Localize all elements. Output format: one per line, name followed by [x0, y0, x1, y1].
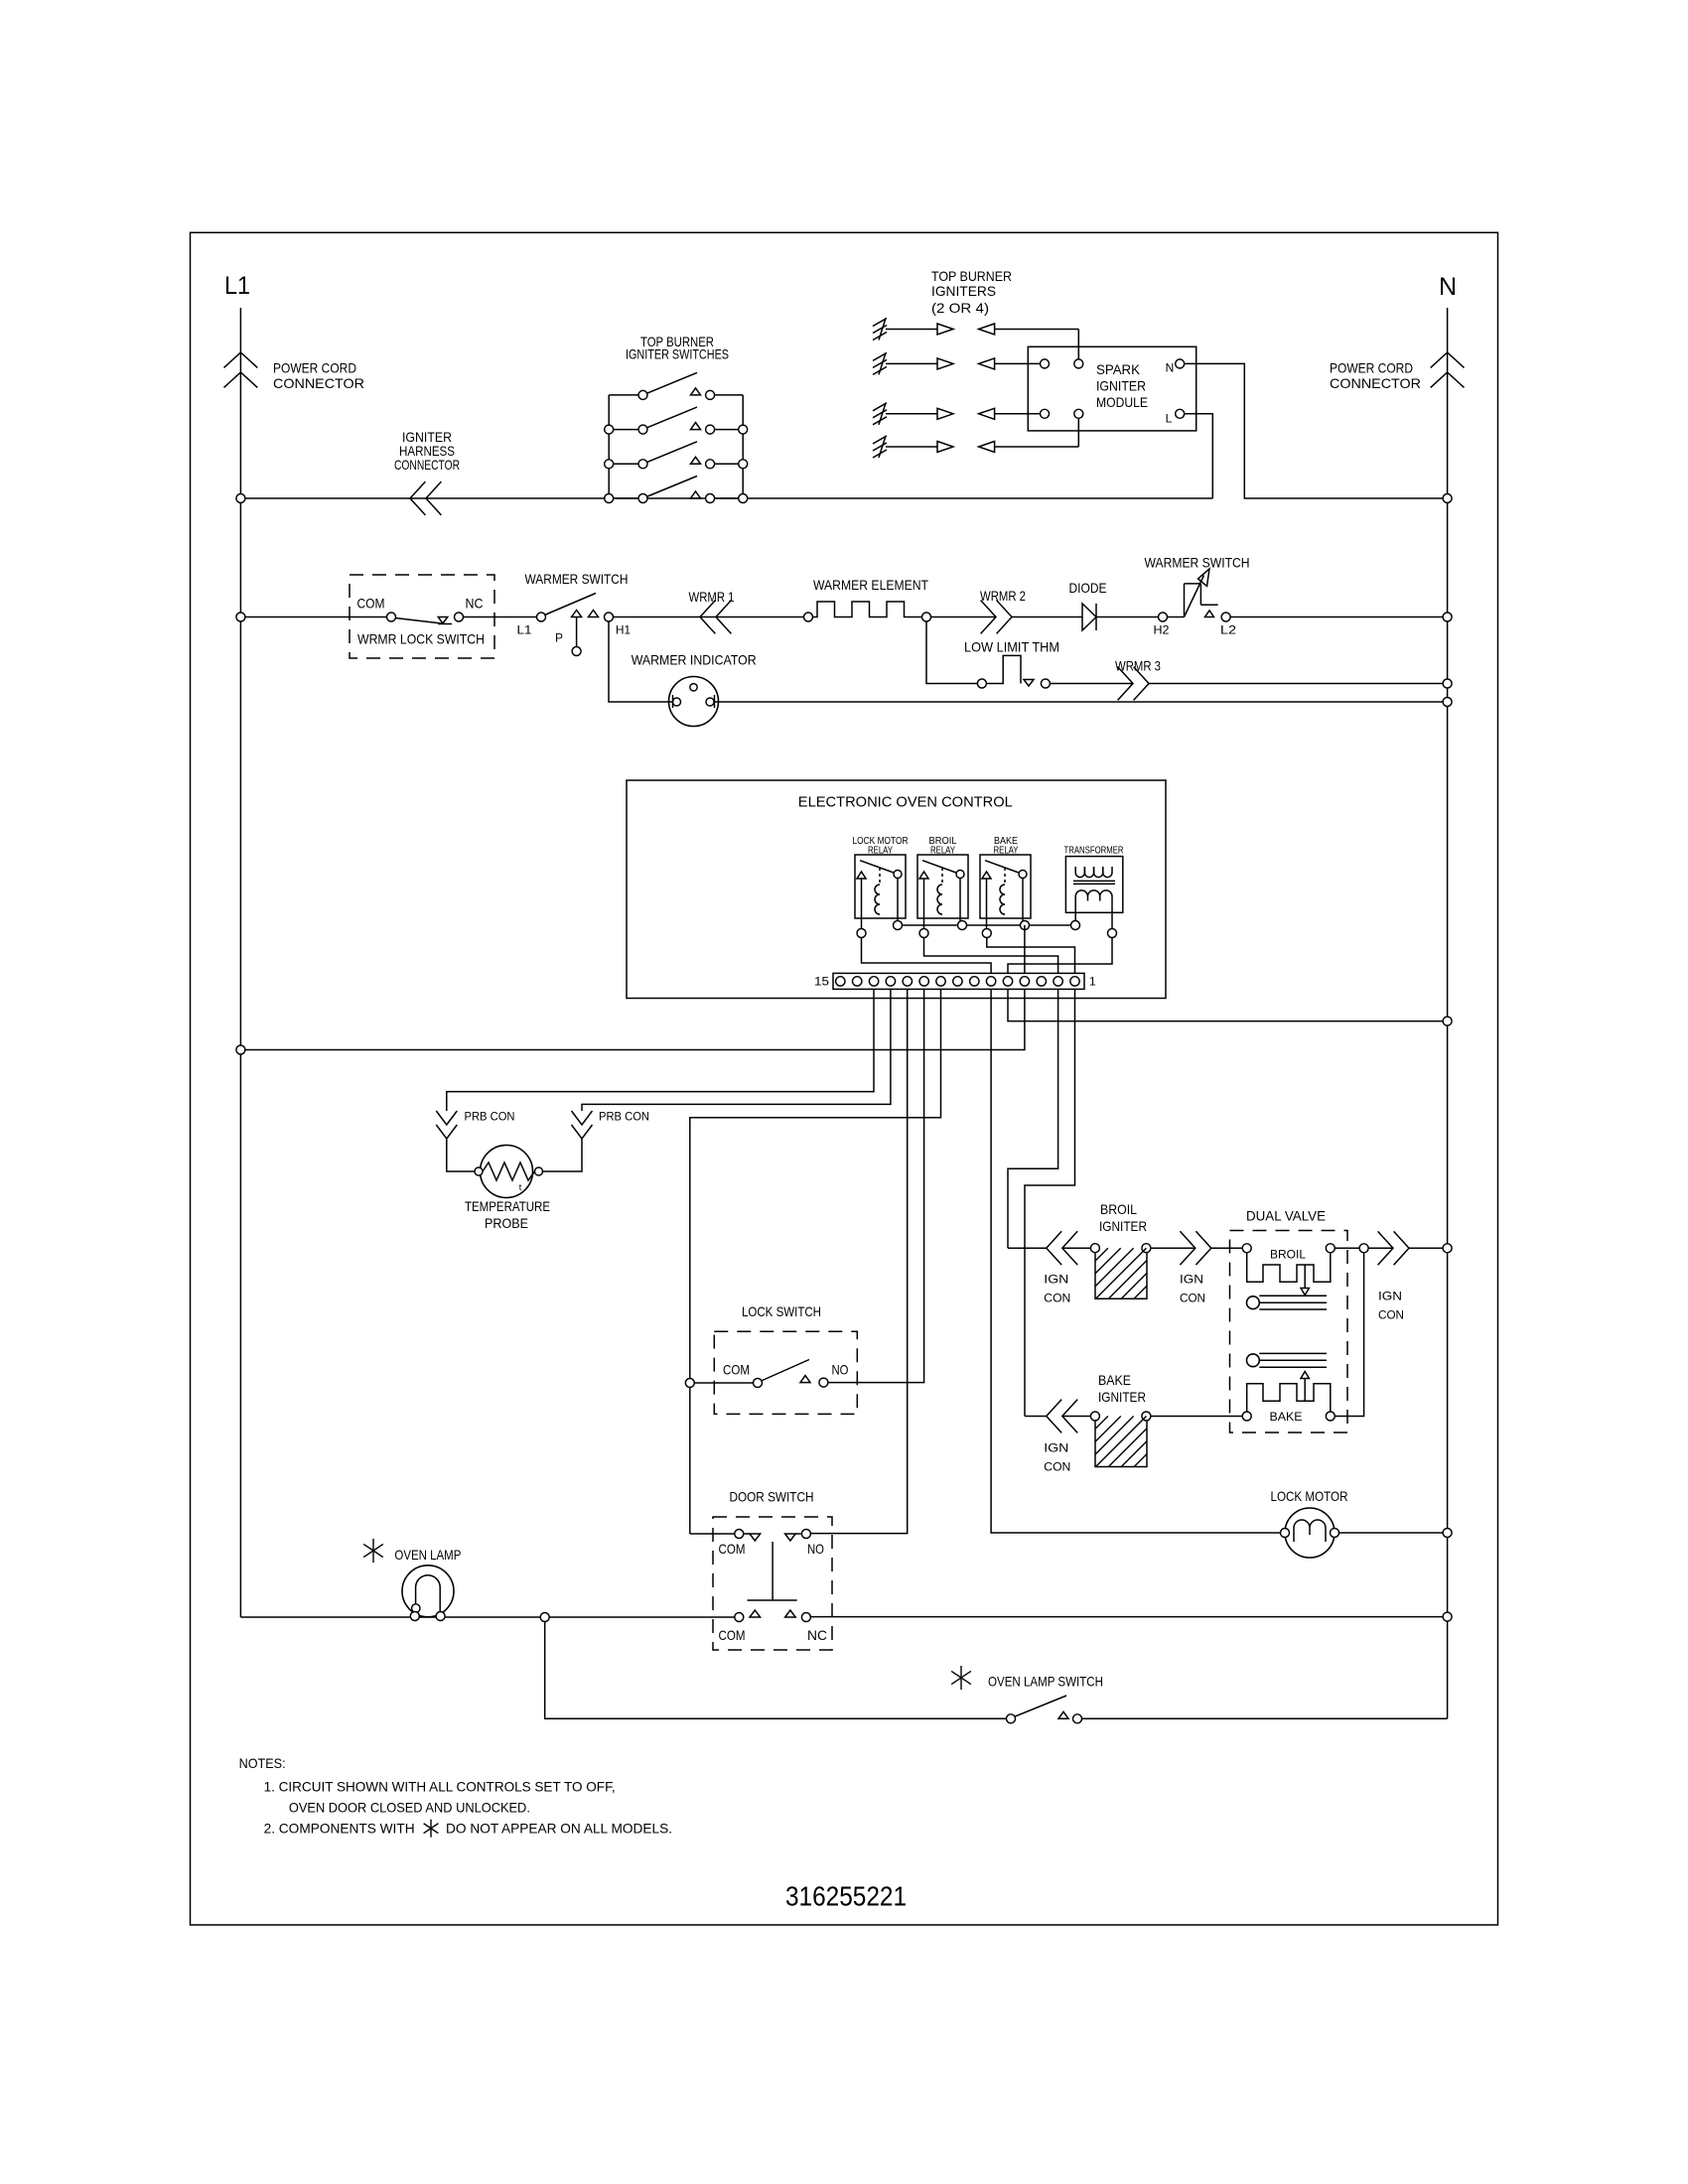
connector IGN CON valve right [1378, 1231, 1393, 1265]
wire door switch NC to N bus [810, 1616, 1447, 1618]
svg-text:POWER CORD: POWER CORD [273, 360, 356, 376]
svg-text:MODULE: MODULE [1096, 394, 1148, 410]
terminal 3 [1037, 977, 1046, 986]
connector IGN CON broil right [1180, 1231, 1195, 1265]
svg-text:WARMER SWITCH: WARMER SWITCH [525, 571, 629, 587]
wire terminal 6 to lock motor [991, 989, 1280, 1533]
wire terminal 11 to door switch NO [810, 989, 907, 1533]
bake valve terminals [1242, 1412, 1251, 1421]
wire broil valve out [1335, 1247, 1393, 1249]
svg-text:WRMR LOCK SWITCH: WRMR LOCK SWITCH [357, 631, 485, 647]
wire bake valve to broil-out junction [1335, 1253, 1363, 1417]
node H2 [1159, 613, 1168, 621]
wire terminal 2 to broil igniter line [1008, 989, 1058, 1248]
wire terminal 9 to lock switch COM [690, 989, 941, 1378]
svg-text:CONNECTOR: CONNECTOR [1330, 375, 1421, 391]
terminal 14 [853, 977, 862, 986]
spark igniter module U1 [1028, 346, 1196, 431]
terminal 7 [970, 977, 979, 986]
bake valve solenoid [1247, 1384, 1331, 1412]
oven lamp asterisk [372, 1539, 374, 1563]
wire warmer indicator to N bus [714, 701, 1448, 703]
broil valve terminals [1242, 1244, 1251, 1253]
broil relay k2 box [917, 855, 968, 918]
wire lamp switch to N bus [1082, 1717, 1448, 1719]
terminal 1 [1070, 977, 1079, 986]
wire top burner line L1 [240, 497, 1212, 499]
top burner igniter 4 [879, 436, 886, 458]
svg-text:CONNECTOR: CONNECTOR [273, 375, 364, 391]
svg-text:L2: L2 [1220, 623, 1236, 637]
svg-text:P: P [555, 630, 563, 644]
terminal 10 [919, 977, 928, 986]
svg-text:WARMER ELEMENT: WARMER ELEMENT [813, 577, 928, 593]
bake gas outlet [1247, 1354, 1260, 1367]
svg-text:BAKE: BAKE [1098, 1372, 1131, 1388]
broil valve solenoid [1247, 1253, 1331, 1283]
terminal 6 [986, 977, 995, 986]
svg-text:SPARK: SPARK [1096, 361, 1141, 377]
wire terminal 4 to L1 bus [240, 989, 1025, 1049]
door switch upper COM contact [735, 1530, 744, 1539]
junction valve outputs [1359, 1244, 1368, 1253]
terminal strip 15..1 [833, 973, 1084, 989]
node L2 [1221, 613, 1230, 621]
junction N door switch line [1443, 1612, 1452, 1621]
oven lamp switch asterisk [960, 1666, 962, 1690]
wire element to WRMR2 [931, 616, 997, 618]
svg-text:WARMER SWITCH: WARMER SWITCH [1145, 555, 1250, 571]
wire IGN CON to dual valve [1211, 1247, 1242, 1249]
svg-text:IGNITER: IGNITER [1098, 1389, 1146, 1405]
wire N vertical bus [1447, 308, 1449, 1718]
wire terminal 10 to lock switch NO [828, 989, 924, 1382]
wire lamp junction to lamp switch [545, 1622, 1007, 1719]
top burner igniter 3 [879, 403, 886, 425]
junction L1 terminal4 line [236, 1045, 245, 1054]
svg-text:WRMR 2: WRMR 2 [980, 588, 1026, 604]
svg-text:WRMR 1: WRMR 1 [689, 589, 735, 605]
temperature probe RT1 [481, 1146, 533, 1198]
terminal 9 [936, 977, 945, 986]
svg-text:IGNITERS: IGNITERS [931, 283, 996, 299]
top burner igniter 2 [879, 352, 886, 374]
svg-text:OVEN DOOR CLOSED AND UNLOCKED.: OVEN DOOR CLOSED AND UNLOCKED. [289, 1799, 530, 1815]
wire igniter row4 to module [1077, 418, 1079, 447]
svg-text:LOCK SWITCH: LOCK SWITCH [742, 1303, 821, 1319]
wire terminal 5 to N bus [1008, 989, 1448, 1021]
svg-text:PRB CON: PRB CON [599, 1109, 649, 1123]
probe connector right PRB CON [572, 1111, 593, 1125]
terminal P of warmer switch [576, 617, 578, 647]
door switch lower NC contact [785, 1610, 796, 1617]
svg-text:DO NOT APPEAR ON ALL MODELS.: DO NOT APPEAR ON ALL MODELS. [446, 1821, 672, 1837]
svg-text:IGN: IGN [1180, 1272, 1203, 1286]
terminal 11 [903, 977, 912, 986]
svg-text:BROIL: BROIL [1100, 1201, 1137, 1217]
svg-text:NC: NC [807, 1627, 827, 1643]
junction N igniter line [1443, 1244, 1452, 1253]
svg-text:OVEN LAMP: OVEN LAMP [394, 1547, 461, 1563]
wire oven lamp line (L1 to door switch COM) [240, 1616, 734, 1618]
svg-text:DIODE: DIODE [1069, 580, 1107, 596]
wire transformer right leg [1111, 896, 1113, 929]
terminal 8 [953, 977, 962, 986]
wire igniter row1 to module [1077, 330, 1079, 360]
junction N terminal5 line [1443, 1017, 1452, 1025]
svg-text:COM: COM [723, 1361, 750, 1377]
svg-text:IGNITER SWITCHES: IGNITER SWITCHES [626, 346, 729, 362]
electronic oven control box [627, 780, 1166, 999]
door switch lower COM contact [735, 1613, 744, 1622]
svg-text:COM: COM [719, 1627, 746, 1643]
svg-text:N: N [1439, 273, 1457, 301]
wire H1 to WRMR1 [614, 616, 809, 618]
wire NC to warmer switch [464, 616, 537, 618]
junction N lock motor line [1443, 1529, 1452, 1538]
wire terminal 12 to probe connector [582, 989, 891, 1111]
svg-text:PROBE: PROBE [485, 1215, 528, 1231]
wire terminal 1 to bake igniter line [1025, 989, 1075, 1416]
wire broil igniter to IGN CON [1151, 1247, 1196, 1249]
svg-text:N: N [1166, 360, 1175, 374]
wire common bus to terminal 4 [1024, 925, 1026, 973]
svg-text:DUAL VALVE: DUAL VALVE [1246, 1208, 1326, 1224]
svg-text:NC: NC [466, 596, 484, 612]
wire WRMR2 to diode [1012, 616, 1082, 618]
wire warmer line [240, 616, 386, 618]
wire WRMR3 to N bus [1149, 683, 1448, 685]
wire element junction to low limit [926, 621, 977, 684]
svg-text:TEMPERATURE: TEMPERATURE [465, 1198, 550, 1214]
door switch actuator [772, 1542, 774, 1600]
svg-text:BROIL: BROIL [1270, 1247, 1306, 1261]
svg-text:1. CIRCUIT SHOWN WITH ALL CON: 1. CIRCUIT SHOWN WITH ALL CONTROLS SET T… [264, 1778, 616, 1794]
junction L1 top line [236, 494, 245, 503]
wire bake relay to terminal 1 [987, 938, 1075, 974]
svg-text:L: L [1166, 411, 1173, 425]
warmer lock switch S1 [350, 575, 494, 658]
svg-text:IGNITER: IGNITER [1096, 378, 1146, 394]
svg-text:PRB CON: PRB CON [465, 1109, 515, 1123]
power cord connector (right) [1431, 352, 1465, 367]
svg-text:WARMER INDICATOR: WARMER INDICATOR [632, 652, 757, 668]
transformer right terminal [1108, 929, 1117, 938]
terminal 15 [836, 977, 845, 986]
svg-text:H1: H1 [616, 623, 631, 637]
igniter switch row 4 [609, 497, 638, 499]
svg-text:IGN: IGN [1044, 1440, 1068, 1454]
bake relay k3 box [980, 855, 1031, 918]
relay triangle terminals [857, 929, 866, 938]
svg-text:BAKE: BAKE [1270, 1410, 1303, 1424]
probe connector left PRB CON [436, 1111, 457, 1125]
connector IGN CON bake left [1047, 1400, 1061, 1433]
wire low limit to WRMR3 [1050, 683, 1133, 685]
wire transformer left leg [1074, 896, 1076, 921]
junction N bus top [1443, 494, 1452, 503]
svg-text:2. COMPONENTS WITH: 2. COMPONENTS WITH [264, 1821, 415, 1837]
svg-text:NOTES:: NOTES: [239, 1755, 286, 1771]
svg-text:15: 15 [814, 975, 829, 989]
terminal 4 [1020, 977, 1029, 986]
wire PRB CON to probe [447, 1139, 475, 1171]
node H1 [605, 613, 614, 621]
svg-text:1: 1 [1089, 975, 1096, 989]
svg-text:NO: NO [832, 1361, 849, 1377]
junction L1 warmer line [236, 613, 245, 621]
svg-text:L1: L1 [224, 272, 250, 300]
svg-text:L1: L1 [517, 623, 532, 637]
svg-text:IGN: IGN [1378, 1289, 1402, 1302]
wire IGN CON to N bus [1409, 1247, 1448, 1249]
svg-text:ELECTRONIC OVEN CONTROL: ELECTRONIC OVEN CONTROL [798, 793, 1013, 810]
svg-text:OVEN LAMP SWITCH: OVEN LAMP SWITCH [988, 1674, 1103, 1690]
wire spark module N to N bus [1185, 363, 1448, 498]
wire L2 to N bus [1230, 616, 1448, 618]
terminal 13 [869, 977, 878, 986]
junction lock switch COM branch [685, 1379, 694, 1388]
svg-text:H2: H2 [1154, 623, 1170, 637]
door switch upper NO contact [785, 1534, 796, 1541]
svg-text:IGN: IGN [1044, 1272, 1068, 1286]
top burner igniter 1 [879, 319, 886, 341]
wire spark module L to top line [1185, 414, 1213, 498]
wire relay common bus [898, 924, 1075, 926]
broil gas outlet [1247, 1297, 1260, 1309]
wire bake igniter to valve [1151, 1416, 1242, 1418]
wire PRB CON to probe right [543, 1139, 582, 1171]
wire transformer to terminal 5 [1008, 938, 1112, 974]
svg-text:IGNITER: IGNITER [1099, 1218, 1147, 1234]
wire diode to H2 [1096, 616, 1159, 618]
svg-text:CONNECTOR: CONNECTOR [394, 457, 460, 473]
igniter switch row 3 [609, 463, 638, 465]
wire broil relay to terminal 2 [924, 938, 1058, 974]
connector IGN CON broil left [1047, 1231, 1061, 1265]
wire lock motor to N bus [1339, 1532, 1448, 1534]
lock motor relay k1 box [855, 855, 906, 918]
igniter harness connector [410, 481, 425, 515]
wire H1 to warmer indicator [609, 621, 672, 702]
svg-text:POWER CORD: POWER CORD [1330, 360, 1413, 376]
svg-text:DOOR SWITCH: DOOR SWITCH [730, 1489, 814, 1505]
svg-text:CON: CON [1044, 1291, 1070, 1304]
terminal 5 [1003, 977, 1012, 986]
svg-text:TRANSFORMER: TRANSFORMER [1064, 844, 1124, 856]
wire junction down to door switch COM [689, 1388, 691, 1535]
wire L1 vertical bus [239, 308, 241, 1617]
igniter switch row 2 [609, 429, 638, 431]
junction N warmer line [1443, 613, 1452, 621]
wire lock motor relay to terminal 6 [862, 938, 992, 974]
svg-text:LOCK MOTOR: LOCK MOTOR [1271, 1488, 1348, 1504]
svg-text:(2 OR 4): (2 OR 4) [931, 300, 989, 316]
svg-text:316255221: 316255221 [785, 1881, 907, 1912]
svg-text:CON: CON [1378, 1307, 1404, 1321]
svg-text:CON: CON [1044, 1459, 1070, 1473]
svg-text:LOW LIMIT THM: LOW LIMIT THM [964, 638, 1059, 654]
power cord connector (left) [224, 352, 258, 367]
svg-text:TOP BURNER: TOP BURNER [931, 268, 1012, 284]
junction N indicator line [1443, 698, 1452, 707]
wire terminal 13 to probe connector [447, 989, 874, 1111]
terminal 12 [886, 977, 895, 986]
svg-text:COM: COM [719, 1541, 746, 1557]
junction oven lamp switch branch [540, 1613, 549, 1622]
svg-text:COM: COM [357, 596, 385, 612]
svg-text:CON: CON [1180, 1291, 1205, 1304]
svg-text:NO: NO [807, 1541, 824, 1557]
terminal 2 [1054, 977, 1062, 986]
igniter switch row 1 [609, 394, 638, 396]
junction N WRMR3 [1443, 679, 1452, 688]
